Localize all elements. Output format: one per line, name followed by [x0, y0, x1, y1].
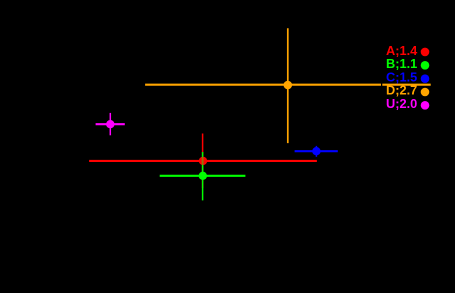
series U (magenta) data point — [106, 120, 114, 128]
legend entry A marker — [421, 48, 430, 57]
series A (red) data point — [199, 157, 207, 165]
series U (magenta) y error bar — [109, 113, 111, 135]
series B (green) y error bar — [202, 152, 204, 200]
series A (red) x error bar — [89, 160, 317, 162]
blend where green bar crosses red point — [202, 157, 204, 165]
legend entry B marker — [421, 61, 430, 70]
series C (blue) x error bar — [295, 150, 338, 152]
series A (red) y error bar — [202, 134, 204, 189]
svg-text:U;2.0: U;2.0 — [386, 96, 417, 111]
series D (orange) x error bar right part — [382, 84, 430, 86]
series D (orange) data point — [284, 81, 293, 90]
series D (orange) x error bar left part — [145, 84, 381, 86]
series C (blue) y error bar — [315, 146, 317, 157]
series C (blue) data point — [312, 147, 320, 155]
series U (magenta) x error bar — [96, 123, 125, 125]
series D (orange) y error bar — [287, 28, 289, 143]
legend entry C marker — [421, 74, 430, 83]
series B (green) data point — [199, 172, 207, 180]
legend entry U marker — [421, 101, 430, 110]
series B (green) x error bar — [160, 175, 246, 177]
legend entry D marker — [421, 88, 430, 97]
